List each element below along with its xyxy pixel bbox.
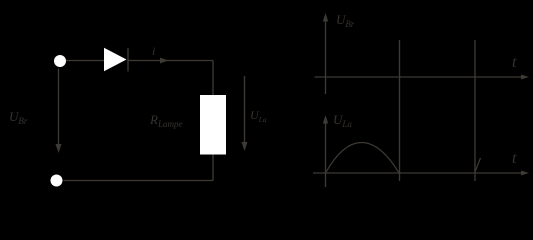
wire [66, 60, 104, 62]
wire [212, 61, 214, 96]
half-sine pulse [326, 142, 400, 173]
terminal bottom-left [51, 175, 63, 187]
resistor R_Lampe [200, 95, 226, 155]
wire [212, 155, 214, 181]
graph2 x-axis [313, 171, 529, 176]
voltage arrow Ua [242, 76, 248, 151]
terminal top-left [54, 55, 66, 67]
diode D1 [104, 48, 128, 72]
svg-text:t: t [512, 54, 517, 71]
svg-text:t: t [512, 150, 517, 167]
period line 2 [474, 40, 476, 181]
svg-text:i: i [152, 44, 155, 58]
current arrow i [160, 58, 168, 64]
voltage arrow Ue [56, 69, 62, 154]
wire [128, 60, 213, 62]
graph1 x-axis [315, 75, 530, 80]
graph1 y-axis [323, 13, 328, 94]
wire [64, 180, 214, 182]
period line 1 [399, 40, 401, 181]
second pulse start [475, 158, 480, 172]
graph2 y-axis [323, 115, 328, 187]
